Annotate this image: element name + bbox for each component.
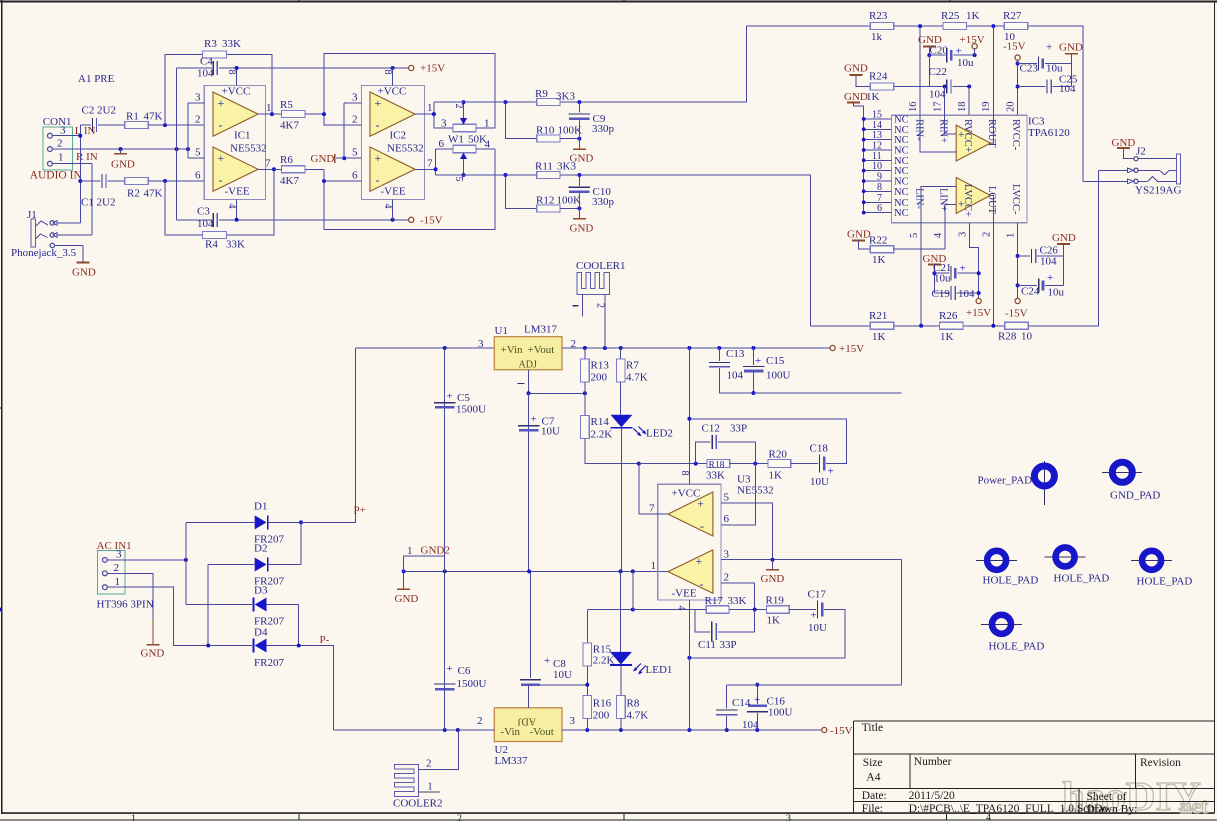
- pad HOLE_PAD 4: [981, 623, 1022, 625]
- svg-text:+: +: [696, 554, 703, 568]
- ground port pin5: [342, 156, 346, 160]
- svg-text:Revision: Revision: [1140, 757, 1181, 769]
- wire bypass vertical: [176, 68, 178, 220]
- connector J2 headphone: [1083, 137, 1182, 197]
- svg-text:C20: C20: [930, 45, 949, 57]
- svg-text:47K: 47K: [144, 188, 163, 200]
- pad GND_PAD: [1102, 471, 1142, 473]
- capacitor C10: [578, 175, 580, 186]
- svg-text:+: +: [544, 655, 550, 667]
- svg-text:+15V: +15V: [960, 34, 985, 46]
- NC pins: [862, 110, 909, 220]
- svg-text:R10: R10: [536, 125, 555, 137]
- capacitor C23: [1018, 63, 1037, 65]
- pad Power_PAD: [1043, 461, 1045, 505]
- svg-text:+VCC: +VCC: [672, 488, 701, 500]
- svg-text:+: +: [447, 663, 453, 675]
- svg-text:R5: R5: [280, 99, 293, 111]
- resistor R5: [282, 111, 305, 118]
- svg-text:4: 4: [226, 204, 237, 209]
- resistor R20: [768, 460, 791, 468]
- svg-text:2: 2: [724, 572, 730, 584]
- wire GND row: [52, 148, 188, 150]
- svg-text:COOLER2: COOLER2: [393, 798, 443, 810]
- svg-text:7: 7: [427, 158, 433, 170]
- capacitor C6: [434, 683, 455, 685]
- svg-text:R27: R27: [1003, 10, 1022, 22]
- svg-text:4: 4: [933, 232, 944, 238]
- wire C6 vertical: [444, 571, 446, 730]
- resistor R11: [537, 172, 560, 179]
- svg-text:GND: GND: [570, 223, 594, 235]
- svg-text:R16: R16: [593, 698, 612, 710]
- wire pin6 feedback: [721, 464, 755, 525]
- svg-text:2.2K: 2.2K: [591, 429, 613, 441]
- svg-text:HT396 3PIN: HT396 3PIN: [97, 599, 154, 611]
- svg-text:LED1: LED1: [646, 664, 673, 676]
- ground: [403, 571, 405, 589]
- svg-text:+VCC: +VCC: [378, 86, 407, 98]
- svg-text:3K3: 3K3: [557, 161, 576, 173]
- svg-text:3K3: 3K3: [556, 91, 575, 103]
- op-amp IC2: [344, 68, 435, 220]
- svg-text:47K: 47K: [144, 111, 163, 123]
- svg-text:+Vin: +Vin: [501, 344, 524, 356]
- svg-text:of: of: [1117, 791, 1127, 803]
- svg-text:R22: R22: [869, 235, 887, 247]
- wire C14/C16 top row: [727, 560, 902, 685]
- svg-text:R9: R9: [535, 88, 548, 100]
- svg-text:GND: GND: [1059, 42, 1083, 54]
- svg-text:R12: R12: [536, 195, 554, 207]
- wire pin2: [721, 583, 755, 609]
- svg-text:10u: 10u: [1048, 287, 1065, 299]
- svg-text:20: 20: [1006, 102, 1017, 113]
- svg-text:5: 5: [195, 147, 201, 159]
- svg-text:+: +: [1046, 42, 1052, 54]
- cooler COOLER2: [394, 764, 418, 796]
- capacitor C21: [934, 272, 949, 274]
- svg-text:-: -: [700, 519, 704, 533]
- svg-text:10: 10: [1021, 331, 1033, 343]
- svg-text:1K: 1K: [940, 331, 954, 343]
- diode D2: [208, 565, 255, 646]
- capacitor C17: [817, 601, 819, 619]
- svg-text:200: 200: [591, 372, 608, 384]
- svg-text:A1 PRE: A1 PRE: [78, 73, 115, 85]
- capacitor C12: [696, 442, 711, 464]
- svg-text:3: 3: [352, 92, 358, 104]
- svg-text:33K: 33K: [226, 239, 245, 251]
- svg-text:D3: D3: [254, 585, 268, 597]
- svg-text:+VCC: +VCC: [222, 86, 251, 98]
- svg-text:7: 7: [265, 158, 271, 170]
- svg-text:4.7K: 4.7K: [627, 710, 649, 722]
- resistor R6: [282, 166, 305, 173]
- svg-text:+: +: [697, 497, 704, 511]
- svg-text:-15V: -15V: [830, 725, 853, 737]
- svg-text:R23: R23: [869, 10, 888, 22]
- svg-text:R28: R28: [998, 331, 1017, 343]
- svg-text:8: 8: [877, 182, 882, 193]
- svg-text:2: 2: [114, 562, 120, 574]
- capacitor C16: [756, 685, 758, 704]
- svg-text:GND: GND: [761, 573, 785, 585]
- svg-text:4K7: 4K7: [280, 175, 299, 187]
- power +15V port: [409, 65, 414, 70]
- svg-text:-Vout: -Vout: [530, 726, 554, 738]
- svg-text:1: 1: [131, 814, 136, 821]
- svg-text:10U: 10U: [808, 622, 827, 634]
- resistor R25: [943, 23, 966, 30]
- svg-text:A4: A4: [866, 772, 880, 784]
- LED LED1: [620, 571, 622, 652]
- IC IC3 TPA6120: [892, 26, 1071, 326]
- svg-text:-15V: -15V: [420, 215, 443, 227]
- svg-text:-: -: [700, 577, 704, 591]
- svg-text:GND: GND: [311, 153, 335, 165]
- svg-text:3: 3: [724, 549, 730, 561]
- svg-text:104: 104: [958, 288, 975, 300]
- svg-text:R6: R6: [280, 154, 293, 166]
- svg-text:1: 1: [427, 102, 433, 114]
- capacitor C5: [444, 348, 446, 571]
- svg-text:R3: R3: [204, 38, 217, 50]
- svg-text:100K: 100K: [558, 125, 583, 137]
- svg-text:C17: C17: [808, 589, 827, 601]
- svg-text:5: 5: [453, 177, 464, 182]
- capacitor C24: [1016, 283, 1020, 287]
- resistor R10: [506, 102, 537, 139]
- svg-text:+: +: [960, 263, 966, 275]
- resistor R9: [537, 99, 560, 106]
- svg-text:1: 1: [1006, 233, 1017, 238]
- svg-text:GND: GND: [1052, 232, 1076, 244]
- TITLEBLOCK: [854, 721, 1215, 813]
- svg-text:LOUT: LOUT: [986, 186, 997, 215]
- svg-text:3: 3: [60, 125, 66, 137]
- svg-text:8: 8: [679, 471, 690, 476]
- svg-text:-VEE: -VEE: [672, 588, 697, 600]
- svg-text:+: +: [447, 391, 453, 403]
- svg-text:IC3: IC3: [1028, 116, 1045, 128]
- wire bottom rail L channel: [810, 170, 1098, 325]
- svg-text:GND: GND: [847, 229, 871, 241]
- svg-text:1k: 1k: [871, 31, 883, 43]
- wire pin3 / GND: [721, 559, 901, 561]
- connector AC IN1: [97, 540, 154, 611]
- svg-text:R21: R21: [869, 310, 887, 322]
- svg-text:3: 3: [441, 118, 447, 130]
- capacitor C14: [726, 685, 728, 709]
- svg-text:C2: C2: [82, 105, 95, 117]
- wire ADJ: [528, 370, 530, 394]
- svg-text:3: 3: [116, 549, 122, 561]
- svg-text:330p: 330p: [592, 123, 615, 135]
- svg-text:GND: GND: [111, 159, 135, 171]
- svg-text:C12: C12: [702, 423, 720, 435]
- ADJ wire U2: [528, 685, 530, 708]
- svg-text:13: 13: [872, 130, 882, 141]
- wire output row L: [436, 175, 811, 326]
- svg-text:GND: GND: [844, 91, 868, 103]
- ground: [120, 149, 122, 154]
- svg-text:1500U: 1500U: [456, 404, 486, 416]
- wire pin5: [721, 503, 773, 560]
- svg-text:Date:: Date:: [862, 790, 887, 802]
- junction: [78, 134, 82, 138]
- wire R vertical: [91, 164, 93, 235]
- svg-text:2U2: 2U2: [97, 105, 116, 117]
- svg-text:3: 3: [958, 232, 969, 237]
- svg-text:1: 1: [58, 152, 64, 164]
- svg-text:4K7: 4K7: [280, 120, 299, 132]
- svg-text:-VEE: -VEE: [381, 186, 406, 198]
- zone numbers bottom margin: [131, 813, 991, 821]
- svg-text:R IN: R IN: [76, 151, 98, 163]
- resistor R16: [583, 695, 592, 718]
- resistor R12: [506, 175, 537, 208]
- svg-text:1500U: 1500U: [457, 678, 487, 690]
- svg-text:File:: File:: [862, 803, 883, 815]
- svg-text:C19: C19: [932, 288, 951, 300]
- svg-text:-: -: [376, 118, 380, 132]
- junction: [78, 179, 82, 183]
- svg-text:+: +: [811, 610, 817, 622]
- svg-text:10u: 10u: [957, 57, 974, 69]
- pad HOLE_PAD 2: [1045, 556, 1086, 558]
- svg-text:6: 6: [724, 513, 730, 525]
- svg-text:RIN+: RIN+: [938, 119, 949, 143]
- wire R14/R18 row: [637, 462, 641, 466]
- svg-text:C4: C4: [200, 56, 213, 68]
- svg-text:C22: C22: [929, 66, 947, 78]
- resistor R7: [616, 359, 625, 382]
- svg-text:GND2: GND2: [421, 545, 450, 557]
- svg-text:R26: R26: [939, 310, 958, 322]
- resistor R23: [870, 23, 893, 30]
- svg-text:NC: NC: [894, 166, 909, 177]
- svg-text:1: 1: [115, 576, 121, 588]
- resistor R26: [940, 322, 963, 329]
- svg-text:2: 2: [195, 114, 201, 126]
- svg-text:1: 1: [407, 545, 413, 557]
- svg-text:+: +: [755, 355, 761, 367]
- capacitor C22: [928, 55, 930, 86]
- svg-text:RVCC+: RVCC+: [962, 119, 973, 153]
- svg-text:GND: GND: [844, 63, 868, 75]
- diode D1: [186, 522, 255, 604]
- svg-text:104: 104: [929, 89, 946, 101]
- resistor R8: [620, 665, 622, 696]
- svg-text:+15V: +15V: [966, 307, 991, 319]
- svg-text:R11: R11: [535, 161, 553, 173]
- power +15V port: [972, 44, 977, 49]
- resistor R15: [587, 609, 633, 611]
- svg-text:+: +: [218, 151, 225, 165]
- diode D3: [186, 604, 252, 606]
- svg-text:10U: 10U: [541, 426, 560, 438]
- svg-text:7: 7: [649, 503, 655, 515]
- svg-text:100U: 100U: [768, 707, 793, 719]
- capacitor C18: [819, 455, 821, 473]
- svg-text:C15: C15: [766, 355, 785, 367]
- wire -15 rail: [333, 729, 821, 731]
- svg-text:1K: 1K: [769, 470, 783, 482]
- wire AC pin1: [107, 587, 208, 645]
- resistor R13: [581, 359, 590, 382]
- connector CON1: [43, 116, 92, 170]
- svg-text:NC: NC: [894, 135, 909, 146]
- svg-text:6: 6: [352, 170, 358, 182]
- svg-text:D:\#PCB\..\E_TPA6120_FULL_1.0.: D:\#PCB\..\E_TPA6120_FULL_1.0.SchDo: [909, 803, 1109, 815]
- svg-text:C5: C5: [457, 392, 470, 404]
- svg-text:3: 3: [786, 814, 791, 821]
- ground: [578, 208, 580, 219]
- capacitor C8: [530, 571, 532, 678]
- svg-text:104: 104: [197, 218, 214, 230]
- svg-text:50K: 50K: [468, 134, 487, 146]
- svg-text:-: -: [219, 118, 223, 132]
- capacitor C2: [80, 124, 91, 126]
- svg-text:R19: R19: [766, 595, 785, 607]
- regulator U1 LM317: [355, 347, 494, 349]
- svg-text:Title: Title: [862, 722, 883, 734]
- capacitor C7: [528, 393, 530, 571]
- svg-text:104: 104: [727, 370, 744, 382]
- svg-text:Drawn By:: Drawn By:: [1087, 804, 1138, 816]
- svg-text:1: 1: [484, 118, 490, 130]
- capacitor C1: [80, 180, 100, 182]
- svg-text:-15V: -15V: [1005, 308, 1028, 320]
- svg-text:R4: R4: [205, 239, 218, 251]
- svg-text:104: 104: [1059, 83, 1076, 95]
- capacitor C4 bypass row: [177, 67, 212, 69]
- svg-text:ADJ: ADJ: [518, 716, 536, 727]
- svg-text:+: +: [375, 151, 382, 165]
- ground: [82, 259, 84, 263]
- resistor R27: [1004, 23, 1027, 30]
- svg-text:18: 18: [957, 102, 968, 113]
- capacitor C15: [753, 348, 755, 365]
- svg-text:LIN-: LIN-: [914, 188, 925, 209]
- ground: [1065, 53, 1078, 55]
- svg-text:NC: NC: [894, 187, 909, 198]
- svg-text:1K: 1K: [767, 615, 781, 627]
- resistor R1: [125, 122, 148, 129]
- svg-text:NC: NC: [894, 208, 909, 219]
- svg-text:Power_PAD: Power_PAD: [978, 475, 1033, 487]
- resistor R21: [870, 322, 893, 329]
- capacitor C3 bypass row: [177, 219, 212, 221]
- svg-text:Number: Number: [914, 756, 952, 768]
- wire L vertical: [79, 125, 81, 223]
- svg-text:AUDIO IN: AUDIO IN: [30, 170, 83, 182]
- svg-text:IC1: IC1: [234, 130, 251, 142]
- svg-text:1K: 1K: [872, 331, 886, 343]
- junction: [119, 147, 123, 151]
- svg-text:FR207: FR207: [254, 657, 284, 669]
- regulator U2 LM337: [494, 708, 562, 742]
- svg-text:LVCC-: LVCC-: [1010, 184, 1021, 215]
- svg-text:D1: D1: [254, 501, 267, 513]
- svg-text:4.7K: 4.7K: [626, 372, 648, 384]
- svg-text:HOLE_PAD: HOLE_PAD: [983, 575, 1039, 587]
- potentiometer W1 lower: [434, 134, 495, 182]
- ground: [578, 139, 580, 150]
- svg-text:P-: P-: [320, 634, 330, 646]
- power -15V port: [822, 727, 827, 732]
- svg-text:ADJ: ADJ: [519, 360, 537, 371]
- svg-text:NE5532: NE5532: [230, 143, 267, 155]
- svg-text:YS219AG: YS219AG: [1135, 185, 1182, 197]
- svg-text:C11: C11: [698, 639, 716, 651]
- svg-text:D4: D4: [254, 627, 268, 639]
- svg-text:+Vout: +Vout: [528, 344, 555, 356]
- svg-text:8: 8: [226, 70, 237, 75]
- svg-text:R1: R1: [126, 111, 139, 123]
- svg-text:2: 2: [595, 303, 606, 308]
- svg-text:10u: 10u: [934, 273, 951, 285]
- svg-text:6: 6: [195, 170, 201, 182]
- svg-text:R2: R2: [127, 188, 140, 200]
- junction: [186, 147, 190, 151]
- svg-text:+: +: [956, 46, 962, 58]
- wire top rail R channel: [746, 26, 1083, 181]
- svg-text:+15V: +15V: [839, 343, 864, 355]
- svg-text:3: 3: [478, 338, 484, 350]
- svg-text:COOLER1: COOLER1: [576, 260, 626, 272]
- svg-text:+: +: [531, 414, 537, 426]
- svg-text:C23: C23: [1020, 63, 1039, 75]
- capacitor C13: [718, 348, 720, 361]
- power -15V port: [1015, 298, 1020, 303]
- svg-text:R20: R20: [769, 449, 788, 461]
- wire output row R: [434, 26, 746, 102]
- svg-text:C3: C3: [197, 206, 210, 218]
- svg-text:6: 6: [877, 203, 882, 214]
- svg-text:200: 200: [593, 710, 610, 722]
- GND2 net: [404, 570, 668, 572]
- svg-text:ROUT: ROUT: [986, 119, 997, 148]
- svg-text:LIN+: LIN+: [938, 188, 949, 211]
- connector J1 phonejack: [11, 209, 92, 259]
- svg-text:LM337: LM337: [495, 755, 529, 767]
- svg-text:C24: C24: [1021, 286, 1040, 298]
- svg-text:5: 5: [909, 233, 920, 238]
- capacitor C9: [578, 102, 580, 112]
- svg-text:6: 6: [439, 138, 445, 150]
- svg-text:C1: C1: [81, 197, 94, 209]
- wire NC bus ground: [847, 102, 860, 104]
- capacitor C26: [1016, 254, 1020, 258]
- svg-text:-: -: [376, 173, 380, 187]
- pad HOLE_PAD 3: [1131, 559, 1172, 561]
- svg-text:100K: 100K: [557, 195, 582, 207]
- svg-text:W1: W1: [448, 134, 464, 146]
- power -15V port: [409, 217, 414, 222]
- svg-text:1: 1: [428, 782, 433, 793]
- svg-text:GND: GND: [72, 267, 96, 279]
- svg-text:33K: 33K: [706, 470, 725, 482]
- resistor R3 loop: [165, 55, 272, 126]
- svg-text:+: +: [218, 96, 225, 110]
- resistor R2: [125, 178, 148, 185]
- svg-text:33K: 33K: [728, 595, 747, 607]
- svg-text:2: 2: [352, 114, 358, 126]
- capacitor C19: [934, 292, 949, 294]
- svg-text:8: 8: [382, 70, 393, 75]
